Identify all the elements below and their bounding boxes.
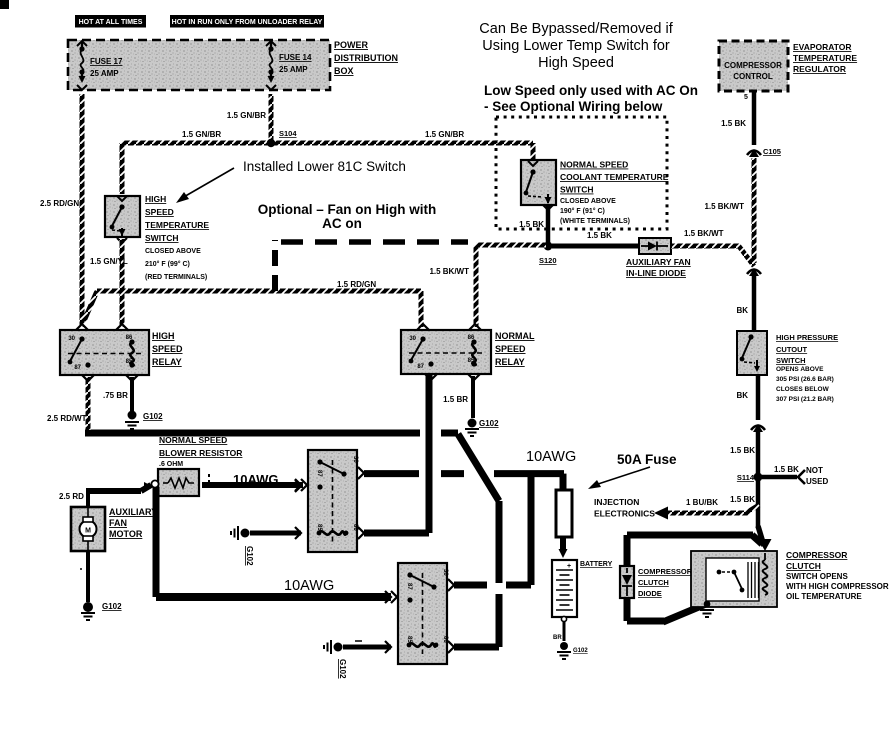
svg-text:CLOSES BELOW: CLOSES BELOW — [776, 386, 830, 393]
svg-text:2.5 RD: 2.5 RD — [59, 492, 84, 501]
svg-text:POWER: POWER — [334, 40, 369, 50]
svg-text:1.5 RD/GN: 1.5 RD/GN — [337, 280, 376, 289]
svg-text:87: 87 — [316, 470, 322, 477]
svg-text:G102: G102 — [143, 412, 163, 421]
svg-text:G102: G102 — [102, 602, 122, 611]
svg-text:85: 85 — [468, 358, 475, 364]
svg-text:S114: S114 — [737, 473, 755, 482]
svg-text:1.5 BK: 1.5 BK — [774, 465, 799, 474]
svg-text:1.5 BR: 1.5 BR — [443, 395, 468, 404]
svg-text:OIL TEMPERATURE: OIL TEMPERATURE — [786, 592, 862, 601]
svg-text:FUSE 14: FUSE 14 — [279, 53, 312, 62]
svg-text:Optional – Fan on High with: Optional – Fan on High with — [258, 202, 437, 217]
svg-text:USED: USED — [806, 477, 828, 486]
svg-text:CLOSED ABOVE: CLOSED ABOVE — [560, 198, 616, 205]
svg-text:10AWG: 10AWG — [526, 449, 576, 465]
svg-text:S120: S120 — [539, 256, 557, 265]
svg-text:25 AMP: 25 AMP — [90, 69, 119, 78]
svg-text:1.5 BK: 1.5 BK — [730, 495, 755, 504]
svg-text:(RED TERMINALS): (RED TERMINALS) — [145, 274, 207, 281]
svg-text:WITH HIGH COMPRESSOR: WITH HIGH COMPRESSOR — [786, 582, 889, 591]
svg-text:210° F (99° C): 210° F (99° C) — [145, 260, 190, 268]
svg-text:HOT IN RUN ONLY FROM UNLOADER: HOT IN RUN ONLY FROM UNLOADER RELAY — [172, 19, 323, 26]
svg-text:G102: G102 — [573, 648, 588, 654]
svg-text:SPEED: SPEED — [152, 344, 183, 354]
svg-text:CUTOUT: CUTOUT — [776, 345, 808, 354]
svg-text:1.5 BK/WT: 1.5 BK/WT — [429, 267, 469, 276]
svg-text:HIGH: HIGH — [152, 331, 175, 341]
svg-text:25 AMP: 25 AMP — [279, 65, 308, 74]
svg-text:AUXILIARY: AUXILIARY — [109, 507, 157, 517]
svg-text:1.5 BK: 1.5 BK — [587, 231, 612, 240]
svg-text:BK: BK — [736, 306, 748, 315]
svg-text:HOT AT ALL TIMES: HOT AT ALL TIMES — [79, 19, 143, 26]
svg-text:DISTRIBUTION: DISTRIBUTION — [334, 53, 398, 63]
svg-text:COMPRESSOR: COMPRESSOR — [724, 61, 782, 70]
svg-text:HIGH: HIGH — [145, 194, 166, 204]
svg-text:305 PSI (26.6 BAR): 305 PSI (26.6 BAR) — [776, 376, 834, 383]
svg-text:AC on: AC on — [322, 216, 362, 231]
svg-text:SWITCH OPENS: SWITCH OPENS — [786, 572, 848, 581]
svg-text:RELAY: RELAY — [152, 357, 182, 367]
svg-text:MOTOR: MOTOR — [109, 529, 143, 539]
svg-text:BOX: BOX — [334, 66, 354, 76]
svg-text:1.5 GN/BR: 1.5 GN/BR — [227, 111, 266, 120]
svg-text:COMPRESSOR: COMPRESSOR — [786, 550, 847, 560]
svg-text:30: 30 — [68, 336, 75, 342]
svg-text:1.5 GN/YL: 1.5 GN/YL — [90, 257, 128, 266]
svg-text:NOT: NOT — [806, 466, 823, 475]
svg-text:TEMPERATURE: TEMPERATURE — [145, 220, 209, 230]
svg-text:190° F (91° C): 190° F (91° C) — [560, 207, 605, 215]
svg-text:1.5 BK: 1.5 BK — [721, 119, 746, 128]
svg-text:1 BU/BK: 1 BU/BK — [686, 498, 718, 507]
svg-text:S104: S104 — [279, 129, 297, 138]
svg-text:87: 87 — [74, 365, 81, 371]
svg-text:M: M — [85, 528, 91, 535]
svg-text:REGULATOR: REGULATOR — [793, 64, 846, 74]
svg-text:G102: G102 — [338, 659, 347, 679]
svg-text:BLOWER RESISTOR: BLOWER RESISTOR — [159, 448, 242, 458]
svg-text:G102: G102 — [245, 546, 254, 566]
svg-text:86: 86 — [468, 335, 475, 341]
svg-text:CONTROL: CONTROL — [733, 72, 773, 81]
svg-text:BK: BK — [736, 391, 748, 400]
svg-text:TEMPERATURE: TEMPERATURE — [793, 53, 857, 63]
svg-text:307 PSI (21.2 BAR): 307 PSI (21.2 BAR) — [776, 396, 834, 403]
svg-text:SPEED: SPEED — [495, 344, 526, 354]
svg-text:COOLANT TEMPERATURE: COOLANT TEMPERATURE — [560, 172, 669, 182]
svg-text:NORMAL SPEED: NORMAL SPEED — [560, 160, 628, 170]
svg-text:85: 85 — [126, 359, 133, 365]
svg-text:5: 5 — [744, 94, 748, 101]
svg-text:1.5 BK: 1.5 BK — [519, 220, 544, 229]
svg-text:1.5 BK/WT: 1.5 BK/WT — [704, 202, 744, 211]
svg-text:Low Speed only used with AC On: Low Speed only used with AC On — [484, 83, 698, 98]
svg-text:87: 87 — [406, 583, 412, 590]
svg-text:1.5 BK/WT: 1.5 BK/WT — [684, 229, 724, 238]
svg-text:87: 87 — [417, 364, 424, 370]
svg-text:(WHITE TERMINALS): (WHITE TERMINALS) — [560, 218, 630, 225]
svg-text:SWITCH: SWITCH — [776, 356, 806, 365]
svg-text:G102: G102 — [479, 419, 499, 428]
svg-text:86: 86 — [352, 524, 358, 531]
svg-text:1.5 GN/BR: 1.5 GN/BR — [425, 130, 464, 139]
svg-text:10AWG: 10AWG — [284, 578, 334, 594]
svg-text:FAN: FAN — [109, 518, 127, 528]
svg-text:2.5 RD/GN: 2.5 RD/GN — [40, 199, 79, 208]
svg-text:CLUTCH: CLUTCH — [786, 561, 821, 571]
svg-text:Installed Lower 81C Switch: Installed Lower 81C Switch — [243, 159, 406, 174]
svg-text:Can Be Bypassed/Removed if: Can Be Bypassed/Removed if — [479, 21, 673, 37]
svg-text:INJECTION: INJECTION — [594, 497, 639, 507]
svg-text:High Speed: High Speed — [538, 55, 614, 71]
svg-text:+: + — [567, 563, 571, 570]
svg-text:DIODE: DIODE — [638, 589, 662, 598]
svg-text:SPEED: SPEED — [145, 207, 174, 217]
svg-text:BATTERY: BATTERY — [580, 561, 613, 568]
svg-text:HIGH PRESSURE: HIGH PRESSURE — [776, 333, 838, 342]
svg-text:CLUTCH: CLUTCH — [638, 578, 669, 587]
svg-text:Using Lower Temp Switch for: Using Lower Temp Switch for — [482, 38, 670, 54]
svg-text:NORMAL SPEED: NORMAL SPEED — [159, 435, 227, 445]
svg-text:30: 30 — [442, 569, 448, 576]
svg-text:2.5 RD/WT: 2.5 RD/WT — [47, 414, 87, 423]
svg-text:AUXILIARY FAN: AUXILIARY FAN — [626, 257, 691, 267]
svg-text:SWITCH: SWITCH — [145, 233, 179, 243]
svg-text:30: 30 — [352, 456, 358, 463]
svg-text:.6 OHM: .6 OHM — [159, 461, 183, 468]
svg-text:- See Optional Wiring below: - See Optional Wiring below — [484, 99, 663, 114]
svg-text:85: 85 — [406, 636, 412, 643]
svg-text:RELAY: RELAY — [495, 357, 525, 367]
svg-text:OPENS ABOVE: OPENS ABOVE — [776, 366, 824, 373]
svg-text:.75 BR: .75 BR — [103, 391, 128, 400]
svg-text:BR: BR — [553, 635, 562, 641]
svg-text:IN-LINE DIODE: IN-LINE DIODE — [626, 268, 686, 278]
svg-text:COMPRESSOR: COMPRESSOR — [638, 567, 693, 576]
svg-text:EVAPORATOR: EVAPORATOR — [793, 42, 852, 52]
svg-text:50A Fuse: 50A Fuse — [617, 452, 677, 467]
svg-text:30: 30 — [409, 336, 416, 342]
svg-text:85: 85 — [316, 524, 322, 531]
svg-text:SWITCH: SWITCH — [560, 185, 594, 195]
svg-text:NORMAL: NORMAL — [495, 331, 535, 341]
svg-text:1.5 BK: 1.5 BK — [730, 446, 755, 455]
svg-text:C105: C105 — [763, 147, 781, 156]
svg-text:86: 86 — [442, 636, 448, 643]
svg-text:86: 86 — [126, 335, 133, 341]
svg-text:FUSE 17: FUSE 17 — [90, 57, 123, 66]
svg-text:1.5 GN/BR: 1.5 GN/BR — [182, 130, 221, 139]
svg-text:ELECTRONICS: ELECTRONICS — [594, 509, 655, 519]
svg-text:CLOSED ABOVE: CLOSED ABOVE — [145, 248, 201, 255]
